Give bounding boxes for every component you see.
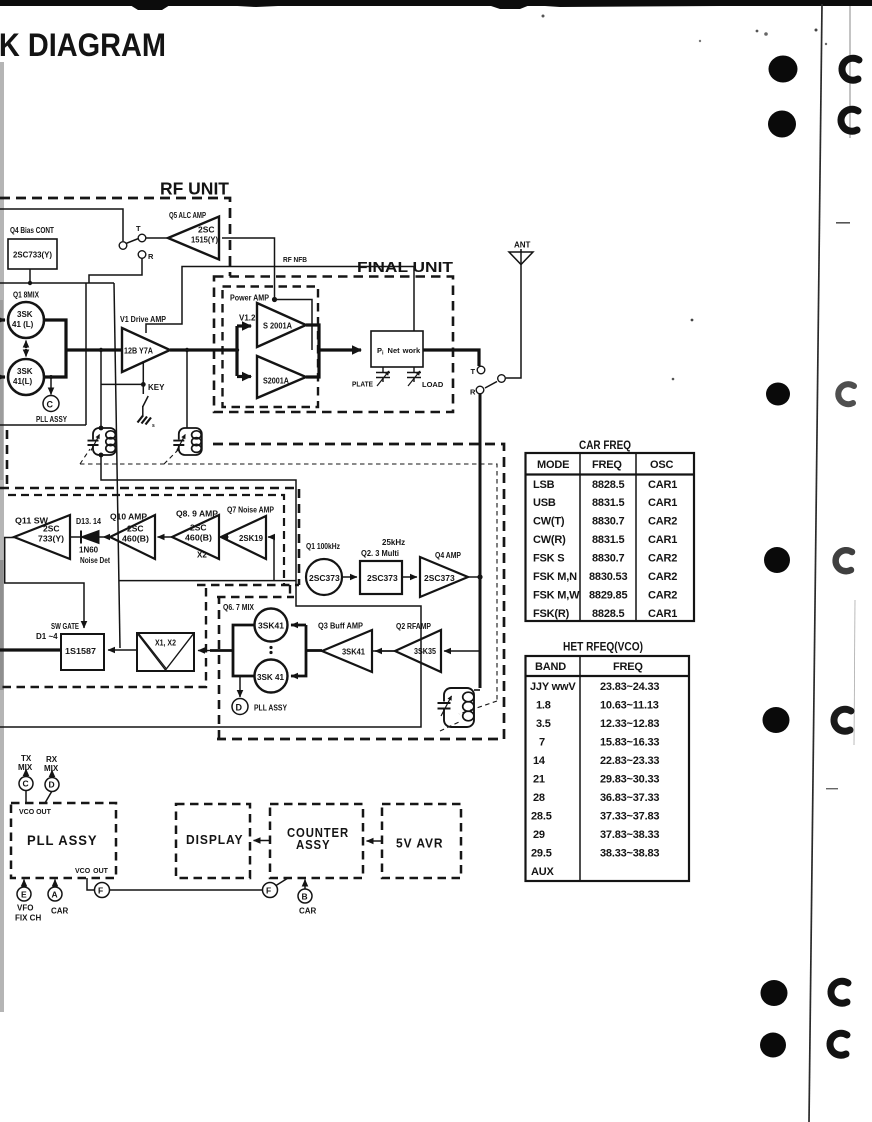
svg-text:2SK19: 2SK19 [239,533,263,543]
svg-text:2SC373: 2SC373 [367,573,398,583]
svg-text:F: F [266,886,271,896]
svg-text:C: C [47,400,54,410]
svg-text:14: 14 [533,755,546,767]
svg-text:8831.5: 8831.5 [592,497,625,509]
svg-text:PLATE: PLATE [352,380,373,389]
svg-text:8829.85: 8829.85 [589,590,627,602]
svg-text:37.83~38.33: 37.83~38.33 [600,829,659,841]
svg-text:CAR FREQ: CAR FREQ [579,440,631,452]
svg-text:37.33~37.83: 37.33~37.83 [600,811,659,823]
svg-text:2SC: 2SC [127,524,144,534]
svg-text:8830.7: 8830.7 [592,516,625,528]
svg-text:Q1 100kHz: Q1 100kHz [306,542,340,551]
svg-text:HET RFEQ(VCO): HET RFEQ(VCO) [563,640,643,654]
svg-text:E: E [21,890,27,900]
svg-text:DISPLAY: DISPLAY [186,832,244,847]
svg-text:D13. 14: D13. 14 [76,517,101,526]
svg-text:AUX: AUX [531,866,554,878]
svg-text:X1, X2: X1, X2 [155,638,176,648]
svg-text:1.8: 1.8 [536,700,551,712]
svg-text:Q4 AMP: Q4 AMP [435,551,462,560]
svg-text:12B Y7A: 12B Y7A [124,346,153,356]
svg-text:CAR2: CAR2 [648,590,677,602]
svg-text:CAR: CAR [51,907,69,916]
svg-text:28: 28 [533,792,545,804]
svg-text:T: T [471,367,476,376]
svg-text:KEY: KEY [148,383,165,392]
svg-text:JJY wwV: JJY wwV [530,681,576,693]
svg-text:SW GATE: SW GATE [51,622,79,631]
svg-text:ASSY: ASSY [296,837,331,852]
svg-text:CK DIAGRAM: CK DIAGRAM [0,27,166,63]
svg-text:Q4 Bias CONT: Q4 Bias CONT [10,226,54,235]
svg-text:CW(R): CW(R) [533,534,566,546]
svg-text:V1.2: V1.2 [239,314,256,323]
svg-text:Q10 AMP: Q10 AMP [110,513,148,522]
svg-text:CAR1: CAR1 [648,534,677,546]
svg-text:FSK M,N: FSK M,N [533,571,577,583]
svg-text:D: D [49,780,55,790]
svg-text:41(L): 41(L) [13,377,32,386]
svg-text:MODE: MODE [537,459,569,471]
svg-text:PiNetwork: PiNetwork [377,346,421,357]
svg-text:41 (L): 41 (L) [12,320,34,329]
svg-text:22.83~23.33: 22.83~23.33 [600,755,659,767]
svg-text:1N60: 1N60 [79,546,99,555]
svg-text:D: D [236,703,243,713]
svg-text:CW(T): CW(T) [533,516,565,528]
svg-text:OSC: OSC [650,459,673,471]
svg-text:21: 21 [533,774,545,786]
svg-text:Q5 ALC AMP: Q5 ALC AMP [169,211,206,220]
svg-text:460(B): 460(B) [185,533,212,543]
svg-text:5V AVR: 5V AVR [396,836,444,851]
svg-text:2SC: 2SC [43,524,60,534]
svg-text:2SC733(Y): 2SC733(Y) [13,250,52,260]
svg-text:8830.7: 8830.7 [592,553,625,565]
svg-text:8828.5: 8828.5 [592,479,625,491]
svg-text:8830.53: 8830.53 [589,571,627,583]
svg-text:MIX: MIX [44,764,59,773]
svg-text:FSK M,W: FSK M,W [533,590,580,602]
svg-text:R: R [148,252,154,261]
svg-text:LSB: LSB [533,479,555,491]
svg-text:28.5: 28.5 [531,811,552,823]
svg-text:3SK 41: 3SK 41 [257,672,284,682]
svg-text:FREQ: FREQ [613,661,643,673]
svg-text:CAR1: CAR1 [648,479,677,491]
svg-text:7: 7 [539,737,545,749]
svg-text:FSK S: FSK S [533,553,564,565]
svg-text:PLL ASSY: PLL ASSY [36,415,68,424]
svg-text:RX: RX [46,755,58,764]
svg-text:460(B): 460(B) [122,534,149,544]
svg-text:Q8. 9 AMP: Q8. 9 AMP [176,510,219,519]
svg-text:F: F [98,886,103,896]
svg-text:S2001A: S2001A [263,376,289,386]
svg-text:USB: USB [533,497,556,509]
svg-text:3SK41: 3SK41 [342,647,365,657]
svg-text:Q3 Buff AMP: Q3 Buff AMP [318,622,364,631]
svg-text:ANT: ANT [514,241,531,250]
svg-text:Q2. 3 Multi: Q2. 3 Multi [361,549,399,558]
svg-text:S 2001A: S 2001A [263,321,292,331]
svg-text:CAR1: CAR1 [648,497,677,509]
svg-text:TX: TX [21,754,32,763]
svg-text:Q1 8MIX: Q1 8MIX [13,291,40,300]
svg-text:15.83~16.33: 15.83~16.33 [600,737,659,749]
svg-text:CAR2: CAR2 [648,571,677,583]
svg-text:Q7 Noise AMP: Q7 Noise AMP [227,506,275,515]
svg-text:LOAD: LOAD [422,380,444,389]
svg-text:Q6. 7 MIX: Q6. 7 MIX [223,603,255,612]
svg-text:Power AMP: Power AMP [230,294,270,303]
svg-text:2SC: 2SC [190,523,207,533]
svg-text:R: R [470,388,476,397]
svg-text:3SK: 3SK [17,310,33,319]
svg-text:2SC373: 2SC373 [309,573,340,583]
svg-text:29.83~30.33: 29.83~30.33 [600,774,659,786]
svg-text:RF UNIT: RF UNIT [160,179,229,199]
svg-text:29: 29 [533,829,545,841]
svg-text:CAR2: CAR2 [648,516,677,528]
svg-text:FREQ: FREQ [592,459,622,471]
svg-text:MIX: MIX [18,763,33,772]
svg-text:B: B [302,892,308,902]
svg-text:A: A [52,890,58,900]
svg-text:8828.5: 8828.5 [592,608,625,620]
svg-text:2SC373: 2SC373 [424,573,455,583]
svg-text:T: T [136,224,141,233]
svg-text:3SK35: 3SK35 [414,646,436,656]
svg-text:1S1587: 1S1587 [65,646,96,656]
svg-text:FIX CH: FIX CH [15,914,41,923]
svg-text:Q2 RFAMP: Q2 RFAMP [396,622,432,631]
svg-text:3SK41: 3SK41 [258,621,284,631]
svg-text:8831.5: 8831.5 [592,534,625,546]
svg-text:3SK: 3SK [17,367,33,376]
svg-text:25kHz: 25kHz [382,538,405,547]
svg-text:PLL ASSY: PLL ASSY [27,832,98,848]
svg-text:12.33~12.83: 12.33~12.83 [600,718,659,730]
svg-text:VCO OUT: VCO OUT [19,809,52,816]
svg-text:VCOOUT: VCOOUT [75,868,109,875]
svg-text:10.63~11.13: 10.63~11.13 [600,700,659,712]
svg-text:C: C [23,779,29,789]
svg-text:Noise Det: Noise Det [80,556,110,565]
svg-text:X2: X2 [197,551,207,560]
svg-text:PLL ASSY: PLL ASSY [254,704,288,713]
svg-text:FINAL UNIT: FINAL UNIT [357,259,453,276]
svg-text:29.5: 29.5 [531,848,552,860]
svg-text:3.5: 3.5 [536,718,551,730]
svg-text:BAND: BAND [535,661,566,673]
svg-text:CAR2: CAR2 [648,553,677,565]
svg-text:VFO: VFO [17,904,33,913]
svg-text:CAR: CAR [299,907,317,916]
svg-text:23.83~24.33: 23.83~24.33 [600,681,659,693]
svg-text:s: s [152,423,155,429]
svg-text:36.83~37.33: 36.83~37.33 [600,792,659,804]
svg-text:733(Y): 733(Y) [38,534,64,544]
svg-text:D1 ~4: D1 ~4 [36,632,58,641]
svg-text:1515(Y): 1515(Y) [191,235,218,245]
svg-text:V1 Drive AMP: V1 Drive AMP [120,315,167,324]
svg-text:CAR1: CAR1 [648,608,677,620]
svg-text:FSK(R): FSK(R) [533,608,570,620]
svg-text:2SC: 2SC [198,225,215,235]
svg-text:38.33~38.83: 38.33~38.83 [600,848,659,860]
svg-text:RF NFB: RF NFB [283,255,308,264]
